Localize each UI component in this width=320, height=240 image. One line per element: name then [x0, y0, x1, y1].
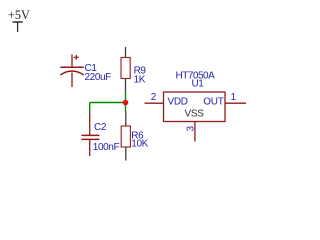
svg-text:VSS: VSS — [185, 109, 205, 120]
svg-text:+5V: +5V — [8, 8, 30, 22]
U1 pin 2 — [145, 102, 164, 104]
svg-text:220uF: 220uF — [85, 72, 112, 83]
svg-text:1K: 1K — [134, 75, 146, 86]
svg-text:1: 1 — [231, 92, 237, 103]
capacitor C2 — [81, 113, 99, 156]
regulator U1 HT7050A — [164, 92, 226, 122]
svg-text:3: 3 — [186, 126, 197, 132]
svg-text:10K: 10K — [131, 138, 148, 149]
capacitor C1 — [60, 55, 83, 88]
svg-text:C2: C2 — [94, 122, 107, 133]
U1 pin 1 — [225, 102, 246, 104]
svg-text:2: 2 — [151, 92, 157, 103]
svg-text:OUT: OUT — [203, 96, 223, 107]
wire horizontal junction to C2 branch — [90, 102, 126, 104]
svg-text:100nF: 100nF — [93, 142, 120, 153]
wire vertical down to C2 — [89, 103, 91, 114]
junction — [123, 100, 129, 106]
svg-text:U1: U1 — [192, 79, 205, 90]
U1 pin 3 — [194, 122, 196, 142]
resistor R9 — [121, 47, 130, 92]
wire R9 bottom to junction — [125, 92, 127, 112]
resistor R6 — [121, 112, 130, 161]
svg-text:VDD: VDD — [168, 96, 188, 107]
power port +5V — [13, 22, 23, 32]
